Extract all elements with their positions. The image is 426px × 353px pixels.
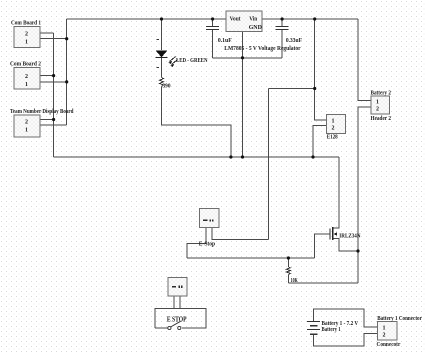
svg-text:Team Number Display Board: Team Number Display Board <box>10 109 74 115</box>
svg-text:1: 1 <box>25 128 28 134</box>
node Com1 pin1 on bus B <box>65 37 68 40</box>
svg-text:2: 2 <box>383 333 386 339</box>
svg-text:2: 2 <box>376 106 379 112</box>
wire Team board pin2 <box>40 119 54 121</box>
wire gate riser to MOSFET <box>314 234 330 258</box>
connector Battery 2 / Header 2 <box>371 96 390 114</box>
svg-text:1: 1 <box>332 118 335 124</box>
switch E-Stop box S1 <box>200 209 219 228</box>
svg-text:Battery 1 Connector: Battery 1 Connector <box>377 316 422 322</box>
svg-text:GND: GND <box>249 25 263 31</box>
connector Com Board 2 <box>14 68 40 90</box>
wire LED cathode to resistor to rail <box>161 58 163 78</box>
wire vertical from top rail to E128 pin1 <box>315 19 327 120</box>
wire E-Stop right pin <box>212 228 269 240</box>
svg-text:1: 1 <box>25 39 28 45</box>
switch E STOP box S2 <box>168 278 187 297</box>
wire MOSFET source lead <box>333 239 358 252</box>
resistor R2 10K <box>286 267 290 275</box>
svg-text:LM7805 - 5 V Voltage Regulator: LM7805 - 5 V Voltage Regulator <box>224 46 301 52</box>
svg-text:Com Board 2: Com Board 2 <box>10 62 41 68</box>
wire right vertical x358 upper <box>358 19 371 101</box>
LED emission arrows <box>170 57 178 65</box>
wire riser x268 <box>268 89 270 240</box>
svg-text:E STOP: E STOP <box>167 315 187 323</box>
node GND stub on mid rail <box>241 155 244 158</box>
wire cap C2 bottom lead <box>281 29 283 58</box>
svg-text:Battery 2: Battery 2 <box>371 90 392 96</box>
LED pin number marks <box>156 39 159 40</box>
wire regulator GND stub down <box>242 31 244 157</box>
node Com2 pin2 on bus A <box>52 74 55 77</box>
node e-stop riser junction <box>313 87 316 90</box>
svg-text:Com Board 1: Com Board 1 <box>11 21 41 27</box>
wire LED anode drop <box>161 19 163 50</box>
svg-text:IRLZ34N: IRLZ34N <box>339 233 361 239</box>
wire battery2 pin2 down long vertical <box>358 107 371 283</box>
wire 10K bottom lead <box>287 275 289 284</box>
wire Com Board 2 pin1 <box>40 81 67 83</box>
wire top rail right segment (Vin net) <box>262 18 358 20</box>
wire top rail left segment (Vout net) <box>67 18 226 20</box>
capacitor C2 0.33uF <box>276 26 289 29</box>
svg-text:0.33uF: 0.33uF <box>286 38 302 44</box>
wire MOSFET drain riser <box>333 157 339 228</box>
svg-text:2: 2 <box>332 125 335 131</box>
wire cap C1 bottom lead <box>212 29 214 58</box>
wire Team board pin1 <box>40 124 67 126</box>
wire cap C1 top lead <box>212 19 214 26</box>
E STOP switch contacts <box>168 321 181 329</box>
wire Com Board 1 pin2 <box>40 32 54 34</box>
wire regulator ground rail <box>213 57 283 59</box>
node LED tap on top rail <box>160 17 163 20</box>
wire bus B vertical (pin1 net) <box>66 19 68 125</box>
svg-text:Header 2: Header 2 <box>371 116 392 122</box>
capacitor C1 0.1uF <box>206 26 219 29</box>
svg-text:LED - GREEN: LED - GREEN <box>176 58 208 64</box>
wire E STOP 2 pins <box>173 296 175 309</box>
node C2 tap on top rail <box>281 17 284 20</box>
node Com2 pin1 on bus B <box>65 80 68 83</box>
battery B1 plates <box>307 321 320 334</box>
node Team pin2 on bus A <box>52 118 55 121</box>
svg-text:10K: 10K <box>291 278 298 284</box>
node GND on regulator ground rail <box>241 56 244 59</box>
resistor R1 390 <box>160 78 164 87</box>
node riser tap on top rail <box>313 17 316 20</box>
wire bus A vertical (pin2 net) <box>53 33 55 157</box>
svg-text:2: 2 <box>25 120 28 126</box>
wire Com Board 1 pin1 <box>40 38 67 40</box>
connector E128 <box>327 114 346 133</box>
svg-text:Battery 1: Battery 1 <box>322 327 341 333</box>
connector Team Number Display Board <box>14 115 40 137</box>
wire E STOP 2 loop <box>155 309 206 328</box>
wire mid ground rail <box>54 156 339 158</box>
svg-text:2: 2 <box>25 31 28 37</box>
LED D1 green <box>156 39 178 68</box>
node LED chain on mid rail <box>229 155 232 158</box>
wire Com Board 2 pin2 <box>40 75 54 77</box>
svg-text:0.1uF: 0.1uF <box>218 38 232 44</box>
svg-text:2: 2 <box>25 74 28 80</box>
wire resistor 390 bottom run <box>162 87 231 158</box>
svg-text:Vin: Vin <box>249 17 258 23</box>
connector Com Board 1 <box>14 27 40 48</box>
node 10K tap on gate rail <box>287 256 290 259</box>
svg-text:Connecotr: Connecotr <box>377 342 401 348</box>
svg-text:Vout: Vout <box>230 17 241 23</box>
wire e-stop right pin to vertical riser <box>269 88 315 90</box>
svg-text:1: 1 <box>383 326 386 332</box>
node C1 tap on top rail <box>211 17 214 20</box>
wire E-Stop left pin <box>187 228 206 259</box>
svg-text:1: 1 <box>25 82 28 88</box>
connector Battery 1 Connector <box>378 322 398 341</box>
svg-text:390: 390 <box>163 84 171 90</box>
wire E128 pin2 to mid rail <box>313 126 327 157</box>
svg-text:1: 1 <box>376 100 379 106</box>
wire battery1 bottom rail <box>314 334 378 347</box>
node E128 pin2 on mid rail <box>311 155 314 158</box>
svg-text:E-Stop: E-Stop <box>199 242 216 248</box>
wire gate rail <box>187 257 314 259</box>
wire battery1 top rail <box>314 309 378 327</box>
svg-text:E128: E128 <box>327 135 338 141</box>
svg-text:Battery 1 - 7.2 V: Battery 1 - 7.2 V <box>322 321 359 327</box>
node source junction on x358 <box>356 249 359 252</box>
wire 10K top lead <box>287 258 289 267</box>
wire E STOP 2 switch left lead <box>155 327 168 329</box>
wire bottom return rail <box>288 282 358 284</box>
wire cap C2 top lead <box>281 19 283 26</box>
transistor Q1 IRLZ34N MOSFET <box>330 227 337 240</box>
op-amp U1 LM7805 voltage regulator box <box>226 11 263 31</box>
